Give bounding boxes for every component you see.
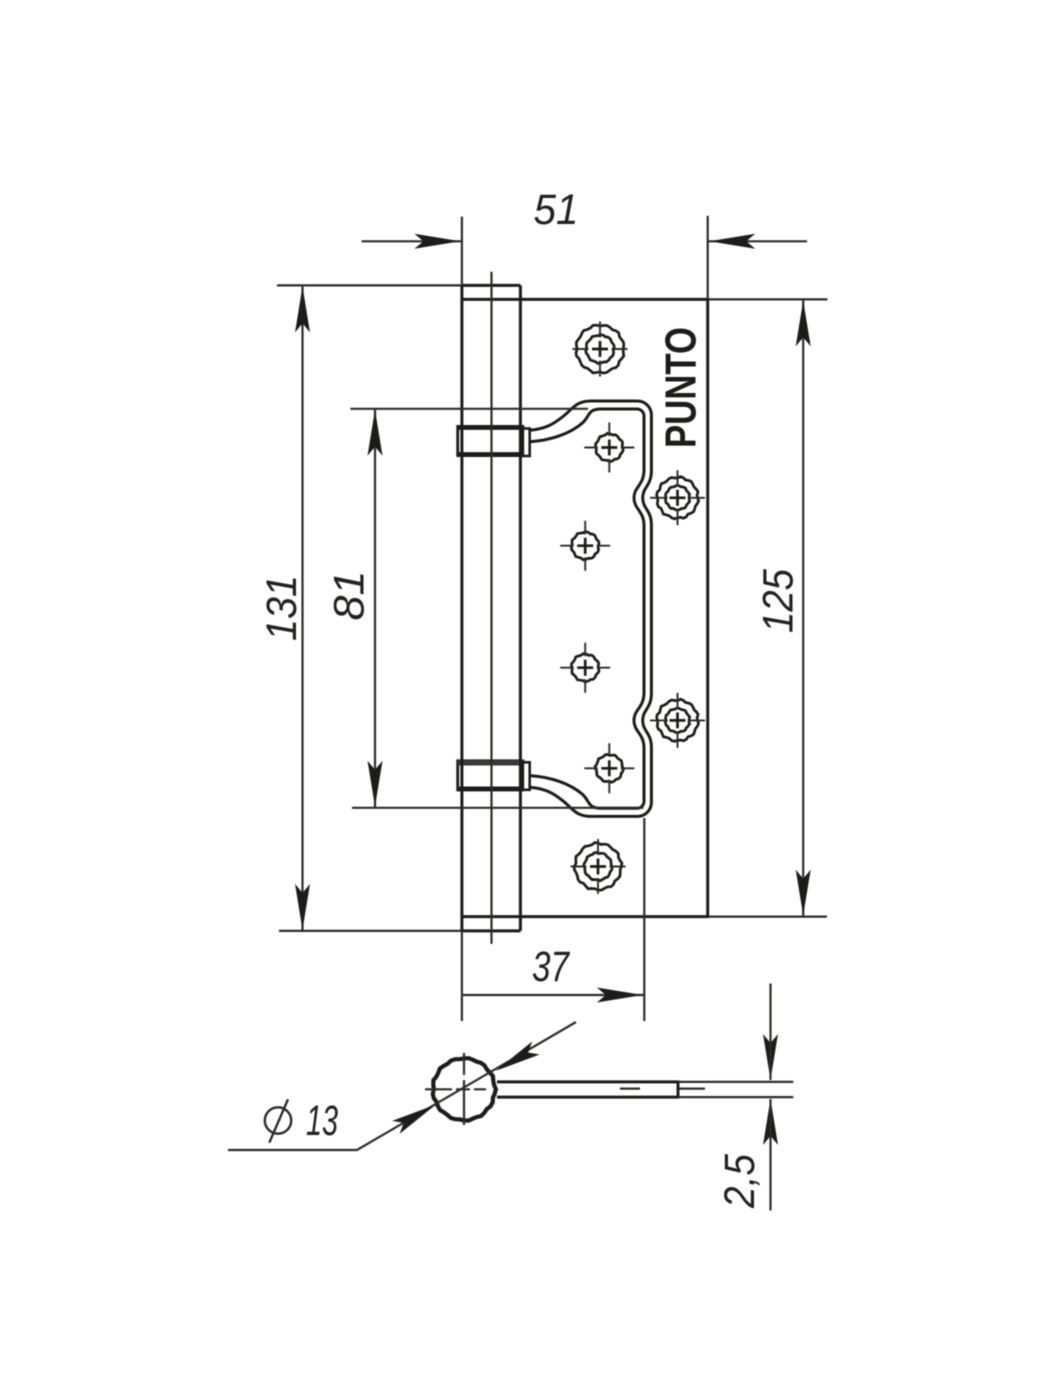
dim 125 label	[754, 568, 802, 633]
dim 81 line	[374, 409, 376, 808]
svg-text:81: 81	[326, 571, 374, 621]
dim 51 line left	[362, 240, 462, 242]
svg-text:37: 37	[532, 943, 571, 991]
leader arrow upper	[496, 1042, 540, 1071]
bottom collar nub	[523, 762, 530, 790]
dim 51 line right	[708, 240, 807, 242]
side view leaf plate	[497, 1082, 679, 1097]
dim 37 extension right	[643, 818, 645, 1021]
svg-text:PUNTO: PUNTO	[657, 327, 706, 448]
PUNTO logo text	[657, 327, 706, 448]
dim 125 arrow top	[796, 300, 811, 346]
screw hole upper	[584, 423, 634, 473]
dim 2.5 arrow bottom	[763, 1099, 778, 1211]
screw hole lower	[584, 743, 634, 793]
countersunk screw hole right upper	[650, 470, 705, 525]
dim 37 arrow	[597, 988, 643, 1003]
svg-text:13: 13	[306, 1097, 338, 1145]
label diameter 13	[265, 1097, 338, 1145]
dim 131 label	[258, 575, 306, 641]
svg-text:2,5: 2,5	[716, 1153, 764, 1209]
dim 51 arrow right	[709, 234, 755, 249]
dim 51 label	[534, 186, 579, 234]
dim 37 line	[462, 994, 644, 996]
dim 81 label	[326, 571, 374, 621]
dim 2.5 line top	[769, 984, 771, 1036]
dim 51 extension line right	[707, 216, 709, 300]
top collar bushing	[458, 426, 523, 455]
dim 51 arrow left	[414, 234, 460, 249]
dim 37 label	[532, 943, 571, 991]
dim 125 line	[802, 299, 804, 916]
dim 131 line	[301, 285, 303, 931]
svg-text:51: 51	[534, 186, 579, 234]
screw hole left upper	[560, 521, 610, 571]
screw hole left lower	[560, 643, 610, 693]
dim 81 extension bottom	[352, 807, 644, 809]
hinge pin barrel	[462, 285, 521, 931]
svg-text:131: 131	[258, 575, 306, 641]
dim 125 extension bottom	[708, 915, 827, 917]
dim 37 extension left	[461, 931, 463, 1021]
inner leaf outline outer	[530, 401, 652, 816]
dim 131 extension bottom	[279, 930, 462, 932]
dim 81 extension top	[350, 408, 588, 410]
dim 81 arrow top	[368, 410, 383, 456]
dim 131 arrow bottom	[295, 884, 310, 930]
inner leaf outline inner	[530, 409, 644, 808]
pin centerline	[490, 272, 492, 944]
bottom collar bushing	[458, 761, 523, 790]
dim 131 extension top	[277, 284, 462, 286]
top collar nub	[523, 429, 530, 457]
leader arrow lower	[392, 1105, 436, 1134]
dim 51 extension line left	[461, 217, 463, 286]
leader line diameter	[228, 1022, 576, 1150]
dim 2.5 arrow top	[763, 1034, 778, 1080]
countersunk screw hole right lower	[650, 693, 705, 748]
dim 125 arrow bottom	[796, 870, 811, 916]
dim 81 arrow bottom	[368, 761, 383, 807]
countersunk screw hole bottom	[571, 839, 626, 894]
circle centerlines	[425, 1053, 705, 1125]
pin cross-section circle	[433, 1058, 496, 1121]
svg-text:125: 125	[754, 568, 802, 633]
countersunk screw hole top	[573, 322, 628, 377]
dim 2.5 label	[716, 1153, 764, 1209]
dim 125 extension top	[708, 298, 828, 300]
dim 131 arrow top	[295, 286, 310, 332]
hinge leaf plate outline	[462, 299, 708, 916]
side view extension lines	[679, 1082, 793, 1097]
